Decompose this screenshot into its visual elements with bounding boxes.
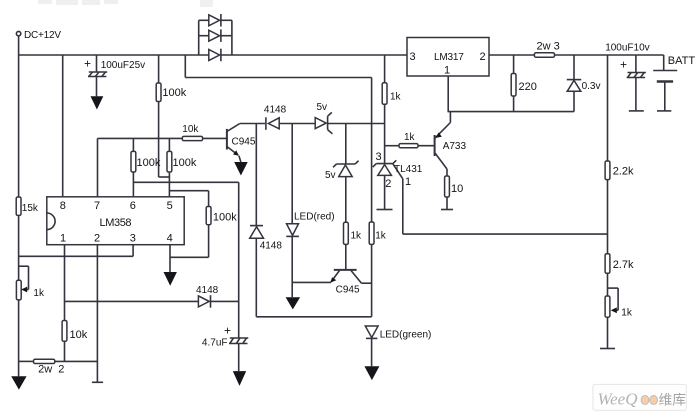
svg-text:2w 3: 2w 3: [537, 41, 560, 53]
ground (filled triangle) under 4.7uF: [233, 371, 246, 386]
wire second bus (bus to middle row): [185, 55, 371, 124]
transistor Q3 A733: [435, 112, 467, 176]
svg-text:LM358: LM358: [100, 217, 132, 229]
svg-text:3: 3: [376, 151, 382, 163]
svg-text:BATT: BATT: [668, 55, 696, 67]
battery BATT: [653, 55, 695, 111]
diode 4148 (vertical): [250, 124, 283, 317]
svg-text:5v: 5v: [317, 102, 328, 113]
resistor R 2.7k: [605, 254, 634, 296]
svg-text:100k: 100k: [213, 211, 237, 223]
wire output row (pin1 to 4148): [65, 300, 199, 302]
wire Q1 collector row: [240, 123, 265, 125]
ground (filled triangle) under LED(red)/Q2 emitter: [286, 297, 301, 309]
svg-text:1: 1: [60, 233, 66, 245]
diode 0.3v: [567, 55, 601, 112]
svg-text:10k: 10k: [70, 329, 88, 341]
faint cropped text top-left (decorative remnant): [38, 0, 213, 7]
wire pin4 to 100k#3 bottom: [170, 245, 209, 272]
ground (filled triangle) under LED(green): [364, 366, 379, 380]
svg-text:2.7k: 2.7k: [613, 259, 634, 271]
svg-text:1: 1: [444, 65, 450, 77]
svg-text:+: +: [84, 57, 91, 71]
watermark WeeQoo: [593, 384, 686, 410]
shunt regulator U2 TL431: [373, 151, 423, 234]
transistor Q2 C945 (lower middle): [292, 270, 371, 295]
svg-text:100k: 100k: [173, 157, 197, 169]
svg-text:5v: 5v: [325, 170, 336, 181]
svg-text:2.2k: 2.2k: [613, 165, 634, 177]
svg-text:100k: 100k: [137, 157, 161, 169]
resistor R 2w 2 (horizontal bottom-left): [19, 359, 98, 375]
svg-text:LM317: LM317: [434, 52, 464, 63]
capacitor C 4.7uF: [202, 182, 248, 371]
regulator U3 LM317 (box): [407, 38, 489, 77]
svg-text:C945: C945: [232, 136, 256, 147]
svg-text:TL431: TL431: [394, 164, 423, 175]
wire base row (pin7 to 10k to C945 base): [98, 137, 183, 139]
potentiometer 1k (right): [605, 288, 633, 348]
wire left rail of diode bank: [198, 20, 200, 55]
resistor R 1k (TL431 to A733): [399, 132, 435, 148]
resistor R 10k (#2 left bottom): [62, 321, 88, 362]
svg-text:1k: 1k: [404, 132, 416, 143]
svg-text:6: 6: [130, 200, 136, 212]
svg-text:3: 3: [410, 51, 416, 63]
op-amp U1 LM358 (box): [47, 197, 184, 245]
zener diode 5v (horizontal): [315, 102, 384, 134]
svg-text:4148: 4148: [260, 240, 283, 251]
svg-text:LED(red): LED(red): [294, 211, 335, 222]
svg-text:4.7uF: 4.7uF: [202, 337, 228, 348]
wire right rail of diode bank: [231, 20, 233, 55]
resistor R 1k (#2 middle): [369, 124, 387, 317]
resistor R 1k (bus tap at x384.6): [382, 55, 401, 163]
resistor R 10: [445, 176, 464, 210]
svg-text:1k: 1k: [621, 307, 633, 318]
resistor R 1k (#1 middle): [344, 222, 363, 269]
wire pin2 column down: [96, 245, 98, 383]
wire LED(red) column from row: [291, 124, 293, 224]
resistor R 2.2k: [605, 161, 634, 254]
resistor R 2w 3: [534, 41, 663, 58]
ground (bar) under pin2: [92, 381, 103, 383]
svg-text:5: 5: [167, 200, 173, 212]
wire TL431 pin1 row to right column: [403, 233, 608, 235]
svg-text:1k: 1k: [390, 91, 402, 102]
resistor R 100k (from bus at x158.6): [156, 55, 187, 177]
ground (filled triangle) bottom-left: [11, 376, 26, 389]
diode 4148 (horizontal, bottom): [196, 285, 239, 308]
svg-text:0.3v: 0.3v: [582, 81, 601, 92]
zener diode 5v (vertical): [325, 124, 359, 223]
svg-text:4: 4: [167, 233, 173, 245]
capacitor C 100uF10v: [605, 42, 649, 111]
svg-text:8: 8: [60, 200, 66, 212]
terminal DC+12V: [16, 30, 61, 55]
resistor R 220: [511, 55, 537, 112]
ground (filled triangle) under Q1 emitter: [234, 162, 248, 176]
svg-text:2w 2: 2w 2: [38, 364, 64, 376]
wire pin7 column: [97, 138, 99, 196]
svg-text:1k: 1k: [375, 230, 387, 241]
transistor Q1 C945 (upper left): [227, 124, 256, 163]
wire node B (pin5 to 100k#3): [169, 190, 208, 192]
svg-text:2: 2: [94, 233, 100, 245]
capacitor C1 100uF25v: [84, 55, 145, 96]
ground (bar) under R10: [441, 209, 453, 211]
resistor R 100k (#1 above pin6): [131, 138, 161, 196]
resistor R 100k (#3 right of LM358): [206, 191, 237, 258]
diode D1 (top of 3 parallel): [199, 14, 232, 27]
wire right column top: [607, 55, 609, 161]
svg-text:10: 10: [451, 183, 463, 195]
svg-text:1k: 1k: [33, 288, 45, 299]
svg-text:7: 7: [94, 200, 100, 212]
svg-text:15k: 15k: [22, 203, 39, 214]
svg-text:2: 2: [385, 178, 391, 190]
resistor R 100k (#2 above pin5): [167, 138, 197, 196]
wire LM317 pin1 down: [447, 76, 449, 112]
diode D3 (on main bus): [209, 49, 221, 62]
svg-text:10k: 10k: [182, 124, 199, 135]
wire pin3 to left column: [19, 245, 134, 257]
ground (bar) under right column: [600, 348, 615, 350]
svg-text:A733: A733: [443, 141, 467, 152]
svg-text:1: 1: [405, 176, 411, 188]
svg-text:4148: 4148: [264, 104, 287, 115]
svg-text:DC+12V: DC+12V: [24, 30, 61, 41]
svg-text:+: +: [620, 58, 627, 72]
svg-text:3: 3: [130, 233, 136, 245]
svg-text:220: 220: [519, 81, 537, 93]
wire main bus left: [19, 54, 209, 56]
svg-text:维库: 维库: [659, 393, 687, 408]
diode 4148 (horizontal, points left): [264, 104, 315, 129]
potentiometer 1k (left): [16, 266, 45, 376]
svg-text:+: +: [224, 324, 231, 338]
wire lower rail: [448, 111, 575, 113]
svg-text:100k: 100k: [162, 87, 186, 99]
svg-text:LED(green): LED(green): [380, 329, 432, 340]
wire pin8 column to bus: [62, 55, 64, 197]
wire pin1 column down: [64, 245, 66, 321]
svg-text:C945: C945: [336, 284, 360, 295]
resistor R 10k (horizontal): [182, 124, 227, 141]
wire TL431 ref row to 1k: [385, 145, 399, 147]
resistor R 15k: [16, 55, 39, 280]
wire main bus right of diodes to LM317 pin3: [221, 54, 407, 56]
ground (filled triangle) under C1: [91, 96, 104, 109]
wire LM317 pin2 row: [489, 54, 534, 56]
LED LED(green): [365, 326, 431, 366]
wire node A (pin6 to 4.7uF column): [133, 181, 238, 183]
LED LED(red): [286, 211, 334, 297]
diode D2 (middle of 3 parallel): [199, 29, 232, 42]
ground (filled triangle) under pin4: [164, 272, 177, 286]
svg-text:100uF25v: 100uF25v: [101, 60, 145, 71]
svg-text:4148: 4148: [196, 285, 219, 296]
svg-text:1k: 1k: [351, 230, 363, 241]
svg-text:WeeQ: WeeQ: [598, 390, 638, 409]
wire bottom row (4148 col to LED green col): [256, 316, 371, 318]
svg-text:2: 2: [480, 51, 486, 63]
svg-text:100uF10v: 100uF10v: [605, 42, 649, 53]
